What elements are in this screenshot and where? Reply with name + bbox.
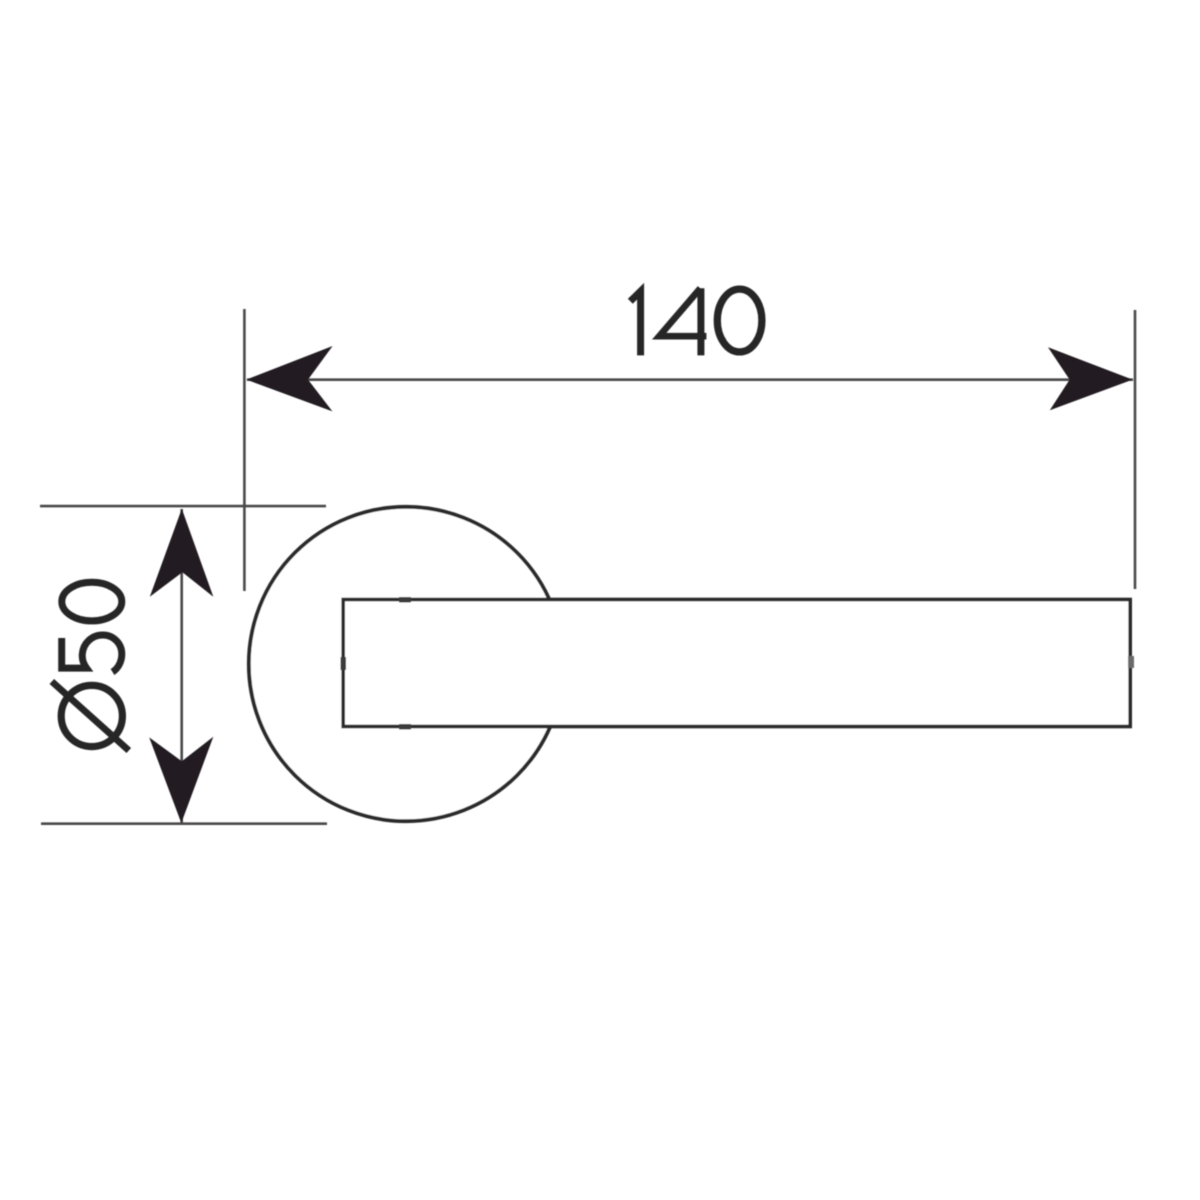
centre tick on lever bottom edge [399,724,411,730]
dimension line 140 [247,378,1133,381]
glyph O-slash [61,685,122,746]
centre tick on lever top edge [399,597,411,603]
dimension text 140: digit 0 [717,289,762,352]
arrowhead down of 50 dimension [149,737,213,823]
glyph 5 [62,635,122,672]
rose circle [249,507,563,821]
centre tick on lever left edge [341,657,347,670]
dimension line diameter 50 [180,509,183,823]
extension line left (for 140) [243,309,246,591]
glyph 0 [62,582,122,621]
dimension text 140: digit 4 [659,288,706,336]
lever bar [343,600,1130,727]
dimension text diameter 50 (rotated) [52,582,129,750]
extension line right (for 140) [1134,310,1137,589]
dimension text 140: digit 1 [630,288,762,355]
extension line top (for diameter 50) [40,505,326,508]
extension line bottom (for diameter 50) [41,822,327,825]
arrowhead right of 140 dimension [1048,347,1133,410]
arrowhead left of 140 dimension [246,346,332,411]
faint smudge inside lever [455,656,732,670]
centre tick on lever right edge [1128,656,1134,668]
arrowhead up of 50 dimension [150,509,214,597]
